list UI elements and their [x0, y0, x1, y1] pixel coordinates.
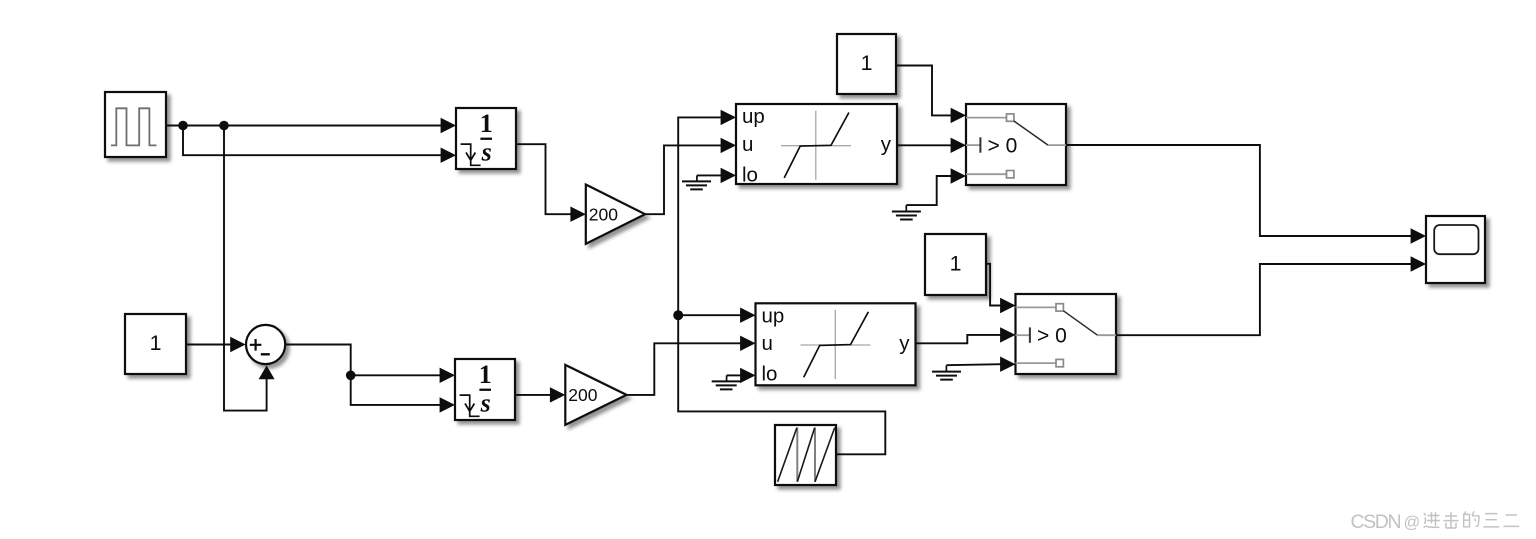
svg-text:> 0: > 0	[1037, 325, 1067, 348]
wire switch SW1 output to scope port 1	[1066, 145, 1426, 244]
svg-text:up: up	[762, 304, 785, 327]
watermark CJK glyphs	[1424, 511, 1520, 528]
wire junction B down to sum block minus input	[224, 126, 275, 411]
scope block	[1426, 216, 1485, 283]
wire sawtooth source to saturation up ports (long net)	[678, 110, 885, 455]
svg-text:1: 1	[861, 51, 873, 75]
watermark text CSDN	[1351, 511, 1421, 533]
ground GND1 for S1 lo port	[682, 168, 736, 190]
node junction C below sum	[346, 371, 356, 381]
svg-text:s: s	[481, 138, 492, 167]
constant C2 value 1 (bottom-left)	[125, 314, 186, 374]
sawtooth repeating sequence source	[775, 425, 836, 485]
svg-text:s: s	[480, 389, 491, 418]
svg-text:lo: lo	[762, 363, 778, 386]
wire constant C3 to switch SW2 port 1	[986, 264, 1016, 313]
wire integrator U2 output to gain G2	[516, 387, 565, 402]
node junction D on sawtooth net	[673, 310, 683, 320]
svg-text:1: 1	[480, 109, 493, 138]
ground GND4 for SW2 port 3	[932, 357, 1016, 380]
svg-text:200: 200	[589, 205, 618, 225]
svg-text:u: u	[742, 133, 753, 156]
svg-text:y: y	[881, 133, 892, 156]
wire constant C2 to sum plus input	[186, 337, 246, 352]
sum block (+/-)	[246, 325, 285, 364]
wire junction C to integrator U2 reset port	[351, 375, 455, 412]
svg-text:200: 200	[568, 385, 597, 405]
gain G2 (200)	[565, 365, 626, 425]
svg-text:up: up	[742, 105, 765, 128]
constant C3 value 1 (middle)	[925, 234, 986, 295]
switch SW1 (> 0)	[966, 104, 1066, 185]
svg-text:1: 1	[150, 331, 162, 355]
svg-text:1: 1	[479, 360, 492, 389]
switch SW2 (> 0)	[1016, 294, 1117, 374]
wire junction D to saturation S2 up port	[678, 308, 755, 323]
svg-text:@: @	[1404, 514, 1421, 532]
wire sum output to integrator U2 port 1	[285, 345, 455, 384]
ground GND2 for SW1 port 3	[892, 168, 966, 219]
gain G1 (200)	[586, 185, 645, 244]
saturation dynamic S1	[736, 104, 897, 186]
constant C1 value 1 (top)	[837, 34, 896, 94]
svg-text:y: y	[899, 332, 910, 355]
integrator U2 (1/s)	[455, 359, 515, 420]
wire gain G2 output to saturation S2 port u	[627, 336, 756, 395]
svg-text:u: u	[762, 332, 773, 355]
integrator U1 (1/s)	[456, 108, 516, 169]
node junction A on pulse output	[178, 121, 188, 131]
svg-text:CSDN: CSDN	[1351, 511, 1401, 533]
wire junction A down to integrator U1 reset port	[183, 126, 456, 163]
saturation dynamic S2	[756, 303, 916, 385]
svg-text:> 0: > 0	[988, 135, 1018, 158]
wire saturation S2 output y to switch SW2 port 2	[916, 327, 1016, 343]
svg-text:lo: lo	[742, 163, 758, 186]
node junction B on pulse output	[219, 121, 229, 131]
pulse generator source block	[105, 92, 166, 157]
wire gain G1 output to saturation S1 port u	[645, 138, 736, 215]
wire constant C1 to switch SW1 port 1	[896, 66, 966, 124]
wire switch SW2 output to scope port 2	[1116, 256, 1426, 335]
wire saturation S1 output y to switch SW1 port 2	[897, 138, 966, 153]
wire integrator U1 output to gain G1	[516, 144, 586, 222]
svg-text:1: 1	[950, 252, 962, 276]
ground GND3 for S2 lo port	[712, 368, 756, 390]
wire pulse generator output to integrator U1 port 1	[166, 118, 456, 133]
